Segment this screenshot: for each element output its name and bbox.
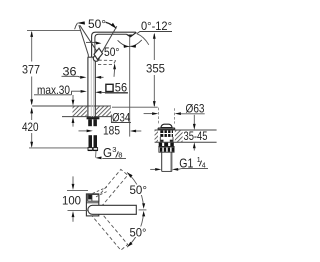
drain tail tube [161, 152, 163, 171]
O63 extension verticals [158, 108, 160, 124]
plan body [86, 194, 98, 216]
drain cap dome [161, 124, 172, 127]
G1 underline [182, 167, 209, 169]
counter level extension to drain [112, 106, 158, 108]
svg-text:420: 420 [22, 120, 39, 134]
svg-text:377: 377 [22, 63, 40, 77]
hoses [89, 135, 93, 147]
mounting nut [87, 117, 100, 119]
dimension 420 bottom arrow [30, 142, 33, 148]
hose tops [88, 119, 92, 126]
swivel arc upper [127, 172, 143, 206]
hose connectors [88, 148, 92, 151]
plan handle outline [88, 194, 99, 201]
355 bottom arrow [153, 101, 156, 107]
drain counter bottom edge [155, 141, 217, 143]
plan extension line top [67, 189, 88, 191]
handle 50 top-left arc stub [75, 23, 78, 29]
arc arrowheads [127, 172, 133, 177]
handle 50 top-left arrowhead [77, 21, 85, 24]
outlet extension line [129, 37, 131, 137]
36 underline [62, 75, 78, 77]
handle ref arrowhead [96, 42, 102, 45]
355 top arrow [153, 33, 156, 39]
drain cap rim plate [158, 127, 175, 129]
dimension 420 top arrow [30, 107, 33, 113]
svg-text:35-45: 35-45 [184, 129, 208, 143]
O63 right arrow and underline [175, 112, 181, 115]
handle axis leg [80, 25, 100, 56]
drain counter hatch right [175, 130, 183, 142]
plan spout bar [88, 205, 136, 214]
spout outlet beak [127, 33, 136, 37]
max.30 underline [34, 94, 71, 96]
spout tube and arm outer edge [92, 32, 136, 57]
handle swing right leg [99, 26, 117, 58]
swivel arc lower [127, 213, 143, 247]
dimension 355 line [153, 34, 155, 106]
svg-text:3: 3 [112, 145, 116, 154]
svg-text:100: 100 [62, 194, 81, 208]
G3/8 leader arrow [95, 157, 101, 160]
handle lever solid [94, 48, 103, 59]
dimension 377 top arrow [30, 31, 33, 37]
svg-text:185: 185 [103, 123, 120, 137]
spout top extension line [27, 29, 81, 31]
handle 50 top-right arrowhead [106, 22, 113, 25]
handle horizontal ref line [86, 41, 97, 43]
G3/8 underline [102, 157, 126, 159]
drain body lower sides [159, 137, 161, 142]
drain body teeth grid [160, 130, 173, 137]
56 leader arrow [95, 91, 101, 94]
drain counter top edge [155, 129, 217, 131]
hose-end extension line [29, 147, 88, 149]
plan body divider [86, 202, 98, 204]
dimension 35-45 [193, 115, 195, 125]
white boxes for plan 50 labels [129, 185, 149, 196]
plan handle dashes [93, 187, 109, 197]
leader arrow to dashed handle [113, 63, 116, 69]
dimension 100 [72, 176, 74, 184]
counter hatch right of riser [96, 106, 111, 116]
svg-text:50°: 50° [130, 225, 147, 239]
svg-text:G: G [103, 145, 112, 160]
drain locknut ring band [159, 147, 174, 152]
dashed swivel bar upper [86, 169, 128, 216]
riser column [88, 57, 96, 117]
drain counter hatch left [155, 130, 158, 142]
max.30 leader to riser [71, 91, 80, 95]
0-12 underline [137, 32, 172, 34]
plan extension line bottom [68, 210, 89, 212]
dimension 420 line [31, 109, 33, 147]
handle swing left leg outer [79, 25, 89, 57]
O63 left arrow [144, 113, 153, 115]
36 right arrow [95, 76, 101, 79]
O34 leader [110, 115, 112, 123]
counter bottom line [62, 116, 111, 118]
counter hatch left of riser [73, 106, 87, 116]
dimension 185 [79, 130, 87, 132]
dimension 377 line [31, 32, 33, 104]
0-12 arc from beak [137, 34, 149, 45]
56 underline [105, 92, 128, 94]
white box for 35-45 [183, 131, 209, 142]
handle pivot circle [93, 56, 99, 62]
tilt arc left arrowhead [124, 45, 129, 48]
dashed swivel bar lower [86, 203, 128, 250]
tilt arc right arrowhead [131, 44, 136, 47]
drain locknut teeth [159, 143, 162, 147]
outlet tilt arc [118, 40, 142, 47]
riser inner lines [91, 58, 93, 117]
bar tip tick [139, 209, 147, 211]
svg-text:50°: 50° [88, 17, 106, 31]
plan handle dark end [88, 195, 91, 200]
svg-text:0°-12°: 0°-12° [141, 19, 172, 33]
label square 56 symbol [106, 84, 113, 91]
counter top line [32, 105, 111, 107]
max.30 thickness arrows [72, 95, 74, 100]
G1 arrows at tube [150, 168, 155, 170]
svg-text:355: 355 [146, 61, 165, 75]
svg-text:50°: 50° [104, 45, 120, 59]
svg-text:50°: 50° [130, 183, 148, 197]
spout arm inner edge [95, 34, 127, 57]
dimension 377 bottom arrow [30, 99, 33, 105]
36 left arrow [80, 76, 86, 79]
handle dashed horizontal position [98, 60, 116, 64]
